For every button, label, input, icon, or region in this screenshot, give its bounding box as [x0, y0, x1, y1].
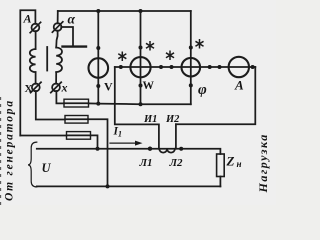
node: CT primary terminal L2 — [179, 147, 183, 151]
node: W bottom terminal — [139, 84, 143, 88]
svg-text:α: α — [68, 12, 76, 27]
svg-text:A: A — [23, 12, 32, 26]
wire: voltage bottom bus from resistor R1 to phi — [98, 103, 191, 106]
wire: R2 to lower generator line — [88, 119, 108, 186]
polarity asterisk W voltage — [147, 42, 154, 50]
svg-text:U: U — [42, 161, 52, 175]
wire: top voltage bus — [58, 10, 191, 12]
wire: primary winding to terminal X — [35, 72, 37, 84]
transformer primary winding A-X — [30, 49, 36, 72]
wire: left riser to resistor R3 — [20, 135, 66, 137]
svg-text:Л2: Л2 — [169, 157, 184, 169]
node: V junction with voltage bus — [96, 102, 100, 106]
node: bus junction above V — [96, 9, 100, 13]
node: current line dot A left — [218, 65, 222, 69]
wire: terminal A to primary winding — [35, 31, 37, 49]
node: R2 drop on lower generator line — [106, 184, 110, 188]
terminal x (secondary bottom clamp) — [51, 82, 61, 92]
wire: CT secondary I2 lead — [175, 124, 177, 149]
wire: terminal a riser to top voltage bus — [57, 11, 59, 23]
wire: load to lower generator line — [219, 177, 221, 187]
svg-text:Л1: Л1 — [139, 157, 153, 169]
svg-text:н: н — [237, 159, 242, 169]
resistor R3 (primary series) — [67, 132, 91, 140]
wire: R1 to V junction — [89, 102, 99, 104]
node: V top terminal — [96, 46, 100, 50]
svg-text:И1: И1 — [143, 114, 157, 125]
transformer core — [46, 47, 48, 71]
terminal A (primary top clamp) — [30, 22, 40, 32]
node: current line dot phi right — [208, 65, 212, 69]
resistor R1 (voltage circuit) — [64, 99, 89, 107]
phase meter phi — [182, 58, 201, 77]
polarity asterisk phi voltage — [196, 40, 203, 48]
svg-text:A: A — [234, 78, 244, 93]
voltmeter V — [89, 58, 109, 78]
wire: meter current line — [115, 66, 256, 68]
terminal a (secondary top clamp) — [52, 22, 62, 32]
node: W top terminal — [139, 46, 143, 50]
load impedance Zn — [217, 154, 225, 177]
node: W junction with voltage bus — [139, 102, 143, 106]
wattmeter W — [130, 57, 150, 77]
wire: ammeter return to CT terminal I2 — [176, 67, 255, 124]
svg-text:x: x — [61, 81, 68, 95]
brace U (generator terminals) — [28, 142, 37, 187]
wire: generator feed left riser to primary terminal A — [20, 10, 35, 135]
node: current line dot A right — [251, 65, 255, 69]
arrow: current direction I1 — [110, 141, 143, 146]
svg-text:Z: Z — [226, 154, 235, 169]
node: current line dot phi left — [170, 65, 174, 69]
wire: x terminal down to series resistor R1 — [56, 91, 64, 103]
wire: X terminal down to resistor R2 — [36, 91, 65, 120]
svg-text:W: W — [143, 80, 155, 92]
wire: terminal a branch to earth — [61, 27, 73, 46]
svg-text:V: V — [104, 80, 113, 94]
node: phi bottom terminal — [189, 83, 193, 87]
wire: bus drop through wattmeter W voltage coil — [140, 11, 142, 104]
page edge scan artifact — [0, 97, 2, 205]
node: CT primary terminal L1 — [148, 147, 152, 151]
svg-text:X: X — [25, 83, 33, 95]
svg-text:φ: φ — [198, 82, 207, 98]
ground (earth bar) — [63, 45, 87, 47]
wire: CT secondary I1 lead up-left to wattmeter current coil — [115, 67, 159, 149]
wire: CT line L1 to L2 — [150, 148, 181, 150]
svg-text:Нагрузка: Нагрузка — [256, 133, 270, 193]
wire: bus drop through phase meter voltage coil — [190, 11, 192, 104]
node: phi top terminal — [189, 46, 193, 50]
transformer secondary winding a-x — [56, 48, 62, 73]
node: V bottom terminal — [96, 84, 100, 88]
resistor R2 (primary series) — [65, 116, 88, 124]
ammeter A — [229, 57, 249, 77]
wire: secondary winding top to terminal a — [56, 31, 57, 48]
terminal X (primary bottom clamp) — [31, 82, 41, 92]
polarity asterisk W current — [119, 52, 126, 60]
current transformer secondary winding — [159, 149, 175, 153]
node: current line dot before W — [119, 65, 123, 69]
node: R3 tap on upper generator line — [96, 147, 100, 151]
node: bus junction above W — [139, 9, 143, 13]
wire: lower generator line — [37, 185, 221, 187]
node: current line dot W right — [159, 65, 163, 69]
wire: R3 to upper generator line — [91, 135, 98, 148]
polarity asterisk phi current — [167, 51, 174, 59]
svg-text:От генератора: От генератора — [4, 99, 16, 201]
wire: line L2 to load — [181, 149, 220, 154]
wire: bus drop through voltmeter V — [97, 11, 99, 104]
wire: upper generator line — [37, 148, 150, 150]
wire: secondary winding bottom to terminal x — [55, 72, 57, 84]
